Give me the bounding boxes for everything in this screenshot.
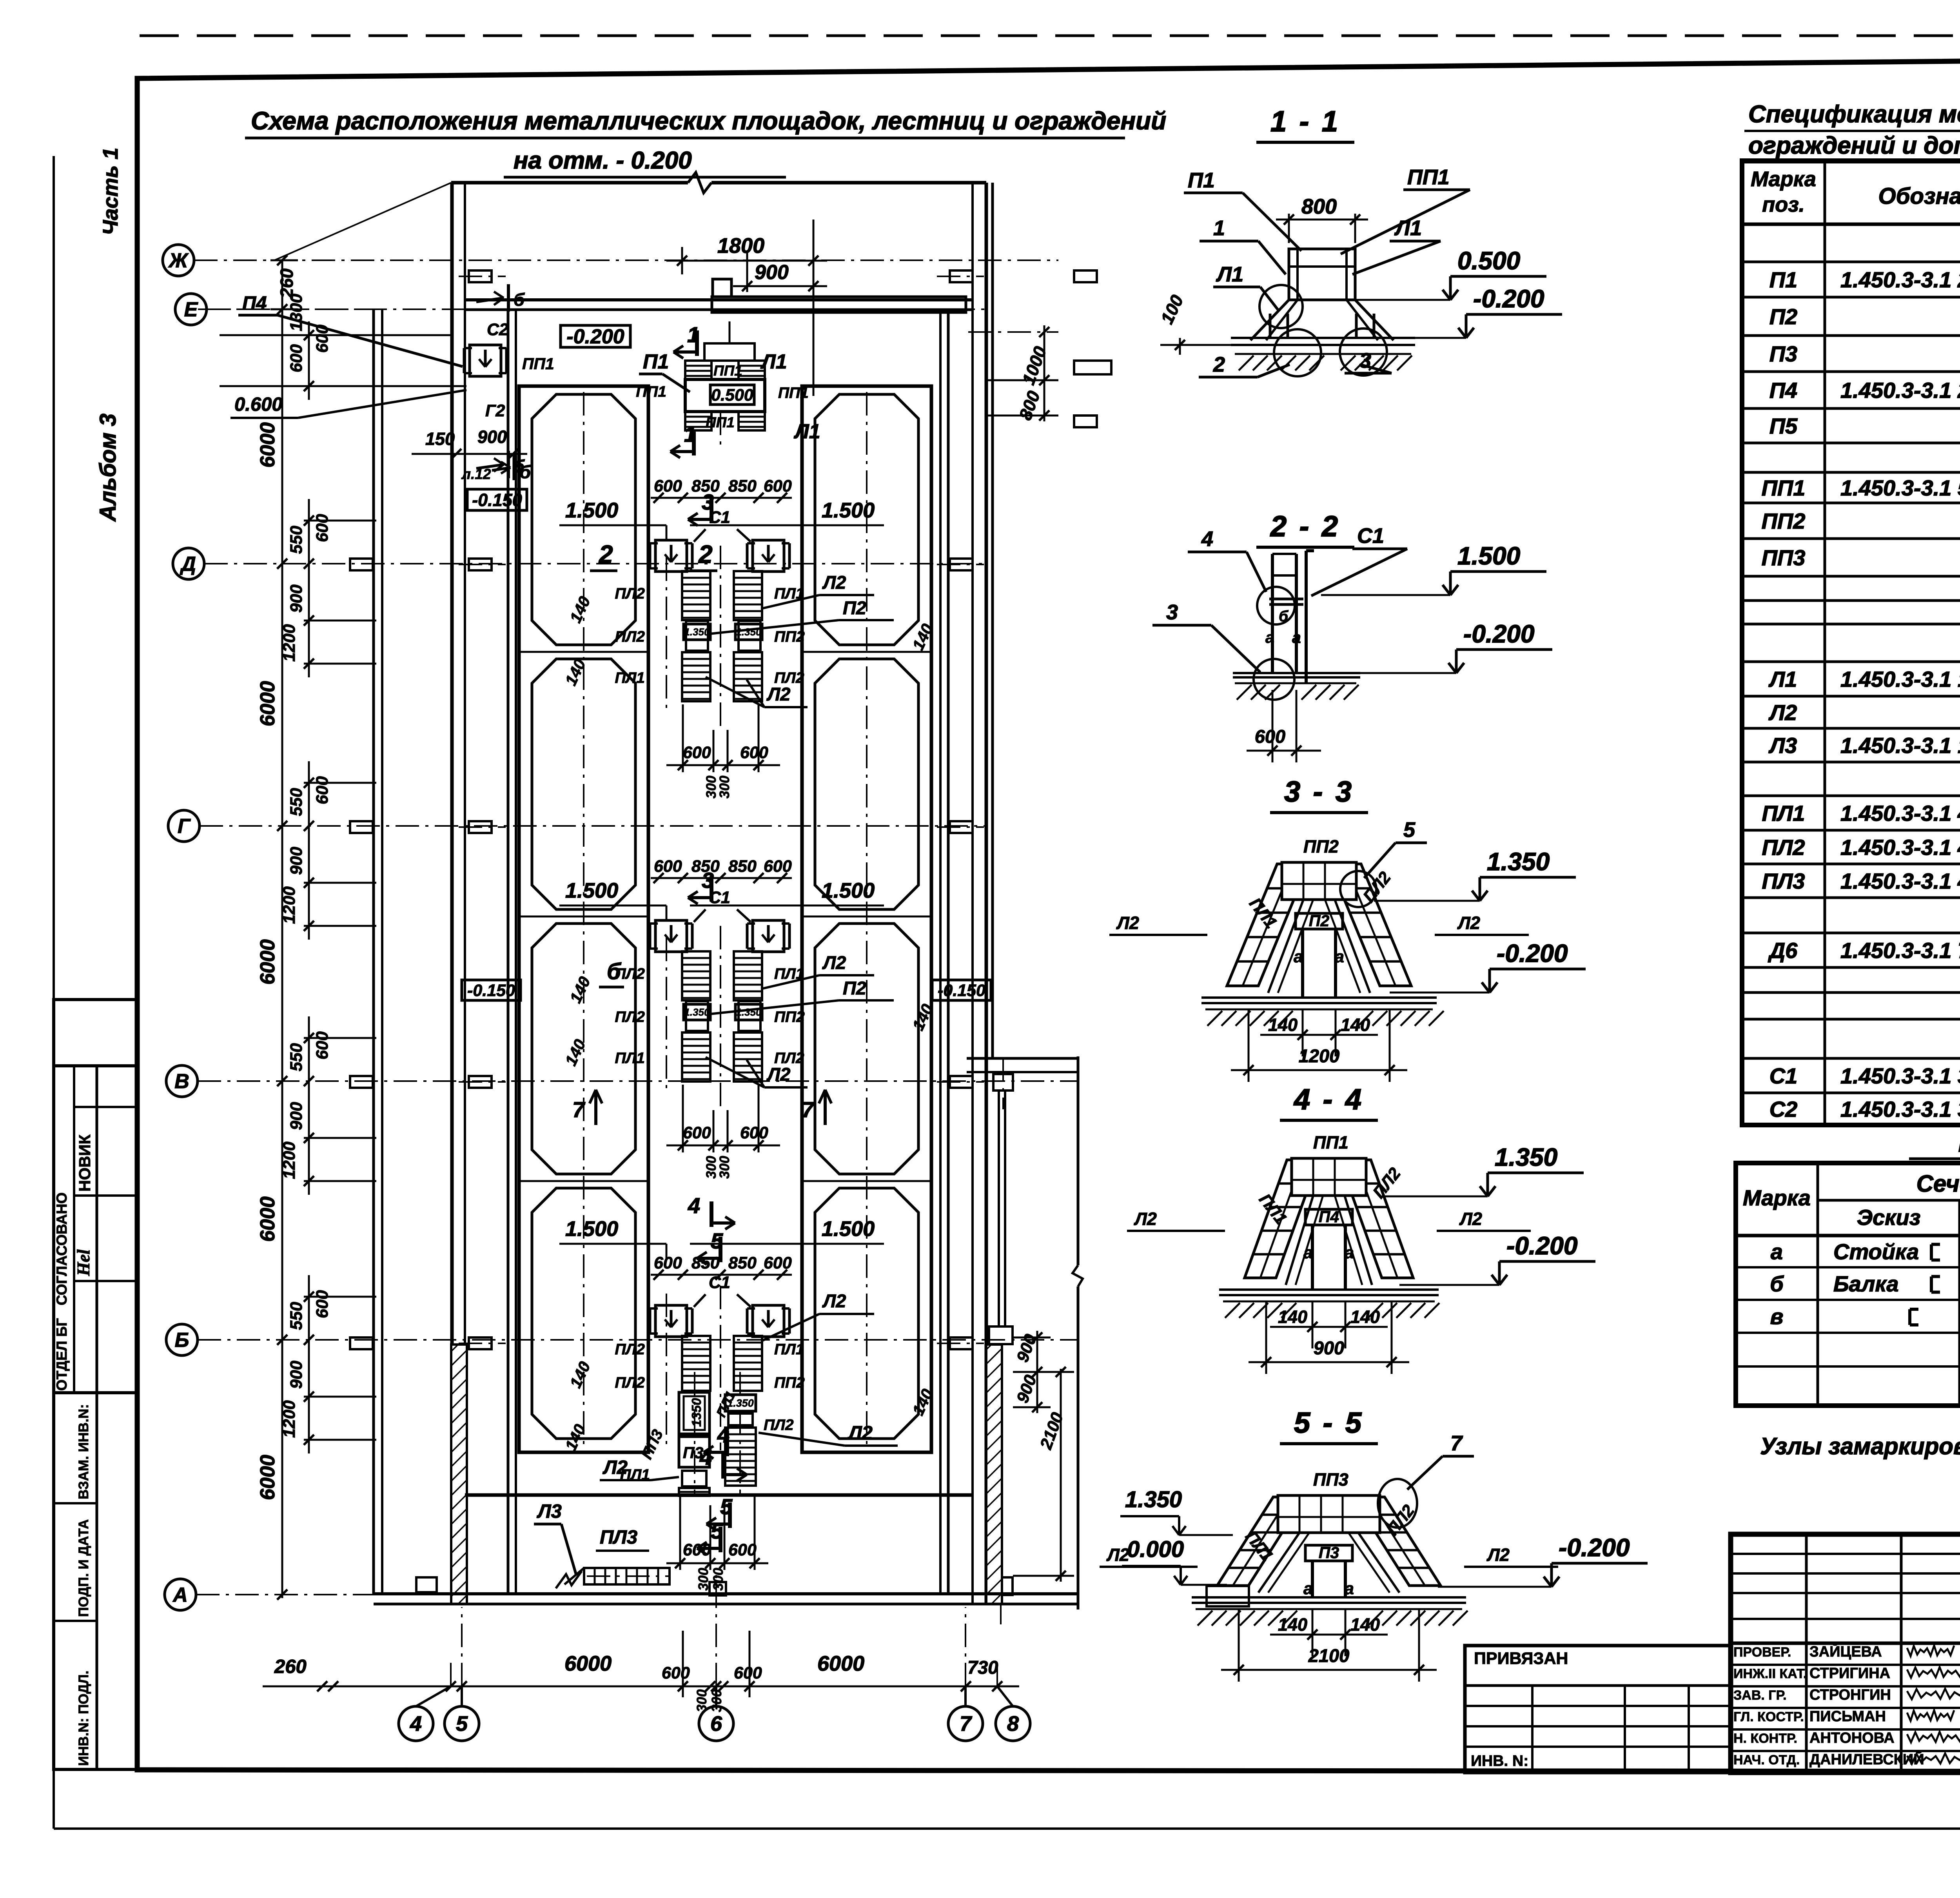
svg-text:600: 600: [734, 1664, 762, 1682]
svg-text:ПЛ2: ПЛ2: [1762, 835, 1805, 860]
clamps: [655, 920, 687, 952]
svg-text:Альбом 3: Альбом 3: [95, 414, 121, 522]
svg-text:6000: 6000: [256, 422, 279, 468]
svg-text:-0.200: -0.200: [1559, 1533, 1630, 1562]
svg-text:ПП1: ПП1: [1407, 165, 1450, 189]
svg-text:100: 100: [1157, 292, 1187, 327]
bottom dimension line: [263, 1686, 1019, 1688]
svg-text:1200: 1200: [280, 1141, 299, 1179]
svg-text:6000: 6000: [817, 1652, 864, 1675]
svg-text:8: 8: [1007, 1712, 1019, 1736]
svg-text:Л2: Л2: [766, 684, 790, 704]
cut marks: [695, 330, 699, 356]
svg-text:Л1: Л1: [760, 350, 787, 373]
svg-text:ПП2: ПП2: [1303, 836, 1339, 856]
svg-text:Часть 1: Часть 1: [99, 148, 122, 235]
svg-text:1.450.3-3.1 2.1.1.0.0: 1.450.3-3.1 2.1.1.0.0: [1840, 378, 1960, 403]
svg-text:Г2: Г2: [485, 401, 505, 420]
svg-text:1.350: 1.350: [1495, 1143, 1557, 1171]
svg-text:СТРОНГИН: СТРОНГИН: [1809, 1687, 1891, 1703]
section trapezoid: [1217, 1497, 1305, 1586]
svg-text:ПП1: ПП1: [522, 355, 554, 373]
svg-text:1200: 1200: [280, 1400, 299, 1438]
svg-text:ПРИВЯЗАН: ПРИВЯЗАН: [1474, 1649, 1568, 1668]
svg-text:140: 140: [1341, 1015, 1370, 1035]
svg-text:600: 600: [764, 857, 792, 876]
svg-text:6: 6: [710, 1712, 722, 1736]
svg-text:НАЧ. ОТД.: НАЧ. ОТД.: [1733, 1753, 1800, 1767]
svg-text:140: 140: [561, 1421, 589, 1453]
axis circle Г: [168, 810, 200, 842]
svg-text:1.500: 1.500: [822, 879, 875, 902]
svg-text:ПП3: ПП3: [1762, 545, 1806, 570]
svg-text:730: 730: [967, 1657, 998, 1678]
svg-text:900: 900: [287, 1361, 306, 1389]
svg-text:ЗАВ. ГР.: ЗАВ. ГР.: [1733, 1688, 1787, 1703]
svg-text:300: 300: [696, 1568, 711, 1591]
svg-text:П1: П1: [1188, 169, 1215, 192]
svg-text:3: 3: [1359, 349, 1371, 372]
svg-text:Л2: Л2: [1457, 913, 1480, 933]
svg-text:150: 150: [425, 429, 455, 449]
svg-text:2: 2: [1213, 353, 1225, 376]
svg-text:600: 600: [764, 1254, 792, 1272]
axis dim chain: [304, 520, 376, 522]
svg-text:1.450.3-3.1 1.2.1.0.0: 1.450.3-3.1 1.2.1.0.0: [1840, 667, 1960, 691]
P1 platform top: [685, 379, 765, 412]
svg-text:л.12: л.12: [461, 466, 491, 482]
svg-text:140: 140: [566, 974, 594, 1006]
svg-text:600: 600: [313, 776, 332, 804]
axis circle 8: [996, 1706, 1030, 1741]
axis dim chain: [304, 1296, 376, 1298]
svg-text:ПЛ1: ПЛ1: [1762, 801, 1805, 826]
svg-text:5 - 5: 5 - 5: [1294, 1406, 1364, 1439]
svg-text:Схема расположения металличес: Схема расположения металлических площадо…: [251, 107, 1166, 135]
svg-text:а: а: [1335, 947, 1344, 966]
E axis chain: [220, 334, 451, 336]
svg-text:ПЛ1: ПЛ1: [615, 1050, 645, 1067]
sidebar block: [54, 1000, 137, 1769]
svg-text:1: 1: [1213, 216, 1225, 240]
svg-text:3 - 3: 3 - 3: [1284, 775, 1354, 808]
bottom dims: [679, 1495, 681, 1570]
svg-text:140: 140: [1350, 1615, 1380, 1635]
svg-text:1200: 1200: [1299, 1045, 1340, 1066]
svg-text:ПЛ2: ПЛ2: [615, 1341, 645, 1358]
svg-text:Л1: Л1: [1768, 667, 1797, 691]
svg-text:Узлы замаркированы на листе: Узлы замаркированы на листе КМ12.: [1760, 1433, 1960, 1459]
svg-text:ИНЖ.II КАТ.: ИНЖ.II КАТ.: [1733, 1666, 1807, 1681]
svg-text:1350: 1350: [689, 1398, 704, 1427]
svg-text:Марка: Марка: [1743, 1185, 1811, 1210]
svg-text:П4: П4: [1319, 1208, 1339, 1226]
svg-text:Л1: Л1: [1394, 216, 1422, 240]
axis circle А: [165, 1579, 196, 1610]
svg-text:900: 900: [287, 1102, 306, 1130]
svg-text:б: б: [514, 456, 525, 476]
svg-text:900: 900: [287, 584, 306, 613]
svg-text:ПП1: ПП1: [1762, 475, 1806, 500]
clamps: [655, 540, 687, 572]
svg-text:ПОДП. И ДАТА: ПОДП. И ДАТА: [76, 1519, 91, 1617]
svg-text:С1: С1: [1357, 524, 1384, 548]
svg-text:550: 550: [287, 1043, 306, 1071]
title block stamp: [1731, 1534, 1960, 1773]
svg-text:6000: 6000: [256, 1455, 279, 1500]
svg-text:7: 7: [572, 1097, 586, 1122]
svg-text:1.450.3-3.1 2.1.1.0.0 - 09: 1.450.3-3.1 2.1.1.0.0 - 09: [1840, 267, 1960, 292]
svg-text:ПЛ1: ПЛ1: [774, 1341, 804, 1358]
axis circle 5: [445, 1706, 479, 1741]
svg-text:1.500: 1.500: [565, 1217, 618, 1241]
svg-text:600: 600: [654, 477, 682, 495]
svg-text:ОТДЕЛ БГ: ОТДЕЛ БГ: [54, 1318, 70, 1391]
svg-text:600: 600: [728, 1541, 757, 1559]
svg-text:1.450.3-3.1 3.1.0.1.0 - 01: 1.450.3-3.1 3.1.0.1.0 - 01: [1840, 1063, 1960, 1088]
svg-text:П3: П3: [1769, 341, 1797, 366]
svg-text:7: 7: [960, 1712, 973, 1736]
svg-text:П4: П4: [1769, 378, 1797, 403]
svg-text:Б: Б: [175, 1329, 189, 1352]
PL3 ladder bottom: [584, 1568, 670, 1584]
svg-text:-0.200: -0.200: [1506, 1232, 1577, 1260]
axis circle Е: [175, 294, 207, 325]
svg-text:0.500: 0.500: [711, 386, 753, 405]
svg-text:ПЛ2: ПЛ2: [615, 1009, 645, 1025]
tanks: [519, 386, 648, 1452]
svg-text:1.350: 1.350: [684, 626, 710, 638]
svg-text:600: 600: [740, 1123, 768, 1142]
axis circle Ж: [163, 245, 194, 276]
svg-text:-0.200: -0.200: [566, 325, 624, 348]
svg-text:5: 5: [711, 1519, 723, 1543]
svg-text:Л3: Л3: [537, 1501, 562, 1522]
svg-text:600: 600: [287, 344, 306, 372]
svg-text:140: 140: [566, 593, 594, 626]
svg-text:ПЛ2: ПЛ2: [764, 1417, 794, 1433]
svg-text:ВЗАМ. ИНВ.N:: ВЗАМ. ИНВ.N:: [76, 1404, 91, 1499]
svg-text:Н. КОНТР.: Н. КОНТР.: [1733, 1731, 1797, 1746]
svg-text:Ж: Ж: [168, 249, 189, 272]
svg-text:140: 140: [561, 1036, 589, 1069]
svg-text:а: а: [1292, 628, 1301, 646]
svg-text:6000: 6000: [256, 681, 279, 726]
svg-text:а: а: [1303, 1243, 1313, 1262]
svg-text:а: а: [1265, 628, 1274, 646]
svg-text:900: 900: [1314, 1337, 1344, 1358]
svg-text:ПП1: ПП1: [713, 363, 742, 379]
svg-text:П2: П2: [1769, 304, 1797, 329]
svg-text:ГЛ. КОСТР.: ГЛ. КОСТР.: [1733, 1709, 1804, 1724]
svg-text:900: 900: [287, 847, 306, 875]
svg-text:-0.150: -0.150: [467, 981, 515, 1000]
svg-text:ДАНИЛЕВСКИЙ: ДАНИЛЕВСКИЙ: [1809, 1750, 1924, 1768]
svg-text:0.000: 0.000: [1127, 1537, 1184, 1562]
svg-text:140: 140: [561, 656, 589, 688]
svg-text:1.450.3-3.1 4.1.2.2.0 - 09: 1.450.3-3.1 4.1.2.2.0 - 09: [1840, 801, 1960, 826]
svg-text:ПП2: ПП2: [774, 1374, 805, 1391]
svg-text:ПП1: ПП1: [778, 385, 809, 401]
svg-text:5: 5: [456, 1712, 468, 1736]
svg-text:Л2: Л2: [1768, 700, 1797, 725]
svg-text:Эскиз: Эскиз: [1857, 1205, 1921, 1230]
svg-text:900: 900: [477, 427, 507, 447]
svg-text:Е: Е: [184, 298, 198, 321]
svg-text:1800: 1800: [717, 234, 764, 258]
svg-text:а: а: [1303, 1579, 1313, 1598]
svg-text:ПЛ2: ПЛ2: [615, 585, 645, 602]
svg-text:Л2: Л2: [603, 1457, 628, 1478]
svg-text:7: 7: [802, 1097, 815, 1122]
svg-text:140: 140: [1278, 1307, 1307, 1327]
svg-text:300: 300: [717, 1156, 732, 1179]
svg-text:4: 4: [410, 1712, 422, 1736]
svg-text:ПЛ2: ПЛ2: [615, 628, 645, 645]
top dims 1800/900: [681, 247, 683, 274]
ladder cluster: [682, 571, 710, 620]
svg-text:6000: 6000: [256, 939, 279, 985]
svg-text:-0.150: -0.150: [938, 981, 985, 1000]
svg-text:1 - 1: 1 - 1: [1270, 105, 1340, 138]
svg-text:600: 600: [683, 743, 711, 762]
svg-text:ПП2: ПП2: [774, 628, 805, 645]
svg-text:ИНВ. N:: ИНВ. N:: [1471, 1753, 1528, 1769]
svg-text:600: 600: [654, 857, 682, 876]
svg-text:800: 800: [1015, 388, 1044, 423]
svg-text:850: 850: [728, 477, 757, 495]
svg-text:5: 5: [1403, 818, 1416, 842]
svg-text:а: а: [1345, 1579, 1354, 1598]
svg-text:ПП3: ПП3: [638, 1427, 666, 1462]
svg-text:ПП1: ПП1: [1313, 1132, 1348, 1152]
svg-text:6000: 6000: [256, 1196, 279, 1242]
svg-text:140: 140: [1268, 1015, 1298, 1035]
svg-text:ПЛ3: ПЛ3: [1762, 869, 1805, 893]
svg-text:Спецификация металлических п: Спецификация металлических площадок. лес…: [1748, 101, 1960, 128]
svg-text:600: 600: [683, 1541, 711, 1559]
svg-text:П1: П1: [1769, 267, 1797, 292]
svg-text:900: 900: [755, 261, 789, 284]
right top dim chain: [1044, 325, 1045, 421]
P3 strip: [679, 1392, 710, 1434]
svg-text:Г: Г: [178, 815, 191, 838]
svg-text:1.350: 1.350: [1487, 847, 1550, 876]
svg-text:Марка: Марка: [1751, 167, 1816, 191]
svg-text:600: 600: [654, 1254, 682, 1272]
section trapezoid: [1245, 1160, 1318, 1278]
svg-text:600: 600: [662, 1664, 690, 1682]
svg-text:1.450.3-3.1 4.1.1.1.0 - 10: 1.450.3-3.1 4.1.1.1.0 - 10: [1840, 869, 1960, 893]
svg-text:600: 600: [764, 477, 792, 495]
svg-text:550: 550: [287, 1302, 306, 1330]
svg-text:1200: 1200: [280, 886, 299, 924]
svg-text:140: 140: [1350, 1307, 1380, 1327]
svg-text:3: 3: [702, 868, 714, 893]
svg-text:Л2: Л2: [766, 1064, 790, 1085]
axis circle В: [166, 1065, 198, 1097]
svg-text:а: а: [1345, 1243, 1354, 1262]
svg-text:1: 1: [687, 322, 699, 347]
svg-text:3: 3: [702, 490, 714, 514]
svg-text:600: 600: [313, 1031, 332, 1060]
left dim chain: [281, 260, 283, 1598]
svg-text:Балка: Балка: [1833, 1272, 1899, 1296]
svg-text:Л2: Л2: [1116, 913, 1139, 933]
svg-text:1.500: 1.500: [822, 1217, 875, 1241]
svg-text:Л2: Л2: [822, 1290, 846, 1311]
axis circle 6: [699, 1706, 733, 1741]
svg-text:ПЛ1: ПЛ1: [615, 670, 645, 686]
svg-text:600: 600: [313, 514, 332, 542]
svg-text:С2: С2: [1769, 1097, 1798, 1121]
plan walls: [451, 181, 688, 185]
svg-text:Л2: Л2: [1106, 1545, 1129, 1565]
svg-text:4: 4: [1201, 527, 1213, 551]
svg-text:П1: П1: [643, 350, 669, 373]
svg-text:Л1: Л1: [1216, 263, 1243, 286]
svg-text:П2: П2: [843, 978, 866, 998]
svg-text:260: 260: [274, 1656, 307, 1677]
privjazan box: [1465, 1646, 1731, 1773]
svg-text:ПП2: ПП2: [1762, 509, 1806, 533]
svg-text:1.450.3-3.1 3.1.0.1.0: 1.450.3-3.1 3.1.0.1.0: [1840, 1097, 1960, 1121]
axis circle Д: [173, 548, 204, 579]
svg-text:ИНВ.N: ПОДЛ.: ИНВ.N: ПОДЛ.: [76, 1671, 91, 1766]
svg-text:П3: П3: [1319, 1544, 1339, 1562]
svg-text:в: в: [1770, 1304, 1784, 1329]
svg-text:б: б: [514, 290, 525, 310]
-0.200 box: [561, 325, 630, 347]
svg-text:300: 300: [709, 1689, 724, 1712]
svg-text:850: 850: [728, 1254, 757, 1272]
svg-text:6000: 6000: [564, 1652, 612, 1675]
svg-text:1.350: 1.350: [684, 1006, 710, 1018]
clamps: [655, 1305, 687, 1337]
specification table grid: [1742, 161, 1960, 1125]
outer sheet border: [140, 34, 1960, 37]
svg-text:Л2: Л2: [1134, 1209, 1157, 1229]
svg-text:Л2: Л2: [848, 1423, 873, 1444]
svg-text:Л2: Л2: [822, 572, 846, 593]
ladder cluster: [682, 951, 710, 1000]
svg-text:-0.200: -0.200: [1473, 285, 1544, 313]
svg-text:Д6: Д6: [1768, 938, 1798, 963]
svg-text:1300: 1300: [287, 294, 306, 331]
svg-text:0.600: 0.600: [234, 394, 283, 415]
section trapezoid: [1227, 864, 1308, 986]
svg-text:П4: П4: [242, 293, 267, 314]
svg-text:1.450.3-3.1 5.1.0.1.0: 1.450.3-3.1 5.1.0.1.0: [1840, 475, 1960, 500]
svg-text:300: 300: [717, 775, 732, 798]
svg-text:600: 600: [313, 1290, 332, 1318]
svg-text:на отм. - 0.200: на отм. - 0.200: [514, 147, 692, 174]
svg-text:140: 140: [566, 1359, 594, 1391]
axis circle 4: [399, 1706, 433, 1741]
svg-text:3: 3: [1166, 601, 1178, 624]
svg-text:2100: 2100: [1036, 1410, 1067, 1452]
svg-text:1.450.3-3.1 4.1.2.2.0: 1.450.3-3.1 4.1.2.2.0: [1840, 835, 1960, 860]
svg-text:Ведомость элементов: Ведомость элементов: [1958, 1128, 1960, 1158]
svg-text:1.350: 1.350: [1125, 1487, 1182, 1512]
svg-text:ограждений и дополнительных: ограждений и дополнительных элементов: [1748, 132, 1960, 159]
svg-text:-0.200: -0.200: [1497, 939, 1568, 967]
svg-text:Л3: Л3: [1768, 733, 1797, 758]
svg-text:550: 550: [287, 526, 306, 554]
svg-text:Стойка: Стойка: [1833, 1239, 1919, 1264]
svg-text:5: 5: [720, 1494, 733, 1519]
svg-text:ПП2: ПП2: [774, 1009, 805, 1025]
column stubs: [469, 270, 492, 282]
right lower dim chain: [1036, 1331, 1038, 1413]
svg-text:550: 550: [287, 788, 306, 816]
svg-text:поз.: поз.: [1762, 193, 1805, 216]
svg-text:С2: С2: [487, 320, 508, 339]
svg-text:Обозначение: Обозначение: [1878, 183, 1960, 209]
svg-text:Л2: Л2: [1486, 1545, 1510, 1565]
svg-text:ПРОВЕР.: ПРОВЕР.: [1733, 1645, 1791, 1660]
svg-text:СТРИГИНА: СТРИГИНА: [1809, 1665, 1890, 1682]
svg-text:1.500: 1.500: [565, 879, 618, 902]
axis dim chain: [304, 1037, 376, 1039]
axis circle 7: [948, 1706, 983, 1741]
svg-text:Л2: Л2: [822, 952, 846, 973]
hatched wall right: [986, 1345, 1002, 1604]
svg-text:4: 4: [699, 1445, 712, 1470]
svg-text:5: 5: [711, 1228, 723, 1253]
svg-text:850: 850: [728, 857, 757, 876]
svg-text:7: 7: [1450, 1432, 1463, 1455]
svg-text:П2: П2: [843, 597, 866, 618]
svg-text:ПИСЬМАН: ПИСЬМАН: [1809, 1708, 1886, 1725]
B cluster: [651, 1274, 792, 1276]
svg-text:1.500: 1.500: [565, 499, 618, 522]
svg-text:ЗАЙЦЕВА: ЗАЙЦЕВА: [1809, 1642, 1882, 1660]
svg-text:2100: 2100: [1308, 1645, 1350, 1666]
svg-text:СОГЛАСОВАНО: СОГЛАСОВАНО: [54, 1192, 70, 1305]
svg-text:0.500: 0.500: [1457, 247, 1520, 275]
corridor walls: [507, 310, 510, 1593]
svg-text:Л1: Л1: [793, 420, 820, 443]
svg-text:П5: П5: [1769, 414, 1798, 438]
svg-text:б: б: [1279, 608, 1289, 625]
svg-text:А: А: [172, 1584, 188, 1606]
svg-text:Нel: Нel: [74, 1249, 93, 1276]
svg-text:1.450.3-3.1 7.1.0.0.2 - 02: 1.450.3-3.1 7.1.0.0.2 - 02: [1840, 938, 1960, 963]
svg-text:АНТОНОВА: АНТОНОВА: [1809, 1730, 1895, 1746]
axis dim chain: [304, 782, 376, 784]
vedomost grid: [1736, 1163, 1960, 1406]
svg-text:600: 600: [740, 743, 768, 762]
svg-text:ПЛ3: ПЛ3: [600, 1527, 637, 1548]
svg-text:а: а: [1771, 1239, 1783, 1264]
svg-text:4: 4: [688, 1193, 700, 1218]
svg-text:Д: Д: [180, 553, 196, 575]
svg-text:ПП3: ПП3: [1313, 1470, 1348, 1490]
-0.150 boxes: [462, 980, 521, 1000]
svg-text:ПЛ2: ПЛ2: [615, 1374, 645, 1391]
svg-text:300: 300: [711, 1568, 726, 1591]
svg-text:ПП1: ПП1: [636, 383, 666, 400]
svg-text:4 - 4: 4 - 4: [1293, 1083, 1364, 1116]
svg-text:НОВИК: НОВИК: [76, 1134, 94, 1192]
svg-text:1.500: 1.500: [822, 499, 875, 522]
svg-text:С1: С1: [1769, 1063, 1798, 1088]
svg-text:800: 800: [1301, 195, 1337, 218]
svg-text:300: 300: [694, 1689, 710, 1712]
svg-text:2 - 2: 2 - 2: [1270, 510, 1340, 543]
axis circle Б: [166, 1324, 198, 1355]
